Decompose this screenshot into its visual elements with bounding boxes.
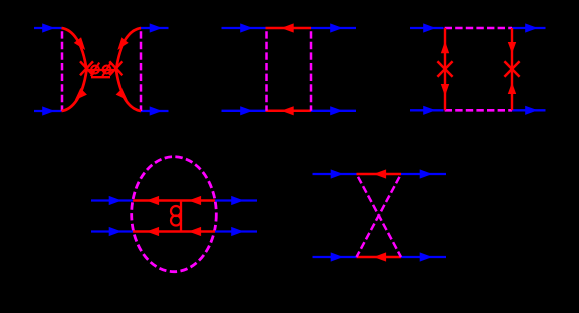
scalar propagator top (magenta dashed horizontal) <box>444 27 513 30</box>
wire: outgoing fermion top (blue) <box>215 199 257 201</box>
arrow 2 <box>189 227 202 236</box>
arrow on incoming fermion top-left <box>42 23 55 32</box>
wire: incoming fermion top (blue) <box>91 199 133 201</box>
wire: outgoing fermion top (blue) <box>401 173 446 175</box>
wire: outgoing fermion bottom (blue) <box>512 109 546 111</box>
arrow <box>240 106 253 115</box>
scalar loop (magenta dashed ellipse) <box>132 157 217 272</box>
arrow <box>281 106 294 115</box>
arrow 2 <box>189 196 202 205</box>
wire: incoming fermion top (blue) <box>222 27 266 29</box>
fermion curve bottom-left (red) <box>62 70 87 111</box>
wire: outgoing fermion bottom (blue) <box>401 256 446 258</box>
arrow down on left vertical <box>441 84 449 96</box>
scalar propagator left (magenta dashed vertical) <box>61 28 64 111</box>
wire: incoming fermion bottom (blue) <box>222 110 266 112</box>
arrow <box>330 23 343 32</box>
arrow <box>423 23 436 32</box>
wire: outgoing fermion bottom-right (blue) <box>141 110 169 112</box>
internal fermion bottom (red, arrow left) <box>357 256 402 259</box>
wire: incoming fermion bottom-left (blue) <box>34 110 62 112</box>
arrow <box>525 23 538 32</box>
arrow on outgoing fermion bottom-right <box>150 106 163 115</box>
wire: outgoing fermion bottom (blue) <box>311 110 356 112</box>
mass-insertion cross on right vertical (X) <box>504 61 519 76</box>
wire: outgoing fermion top (blue) <box>311 27 356 29</box>
arrow <box>281 23 294 32</box>
arrow <box>423 106 436 115</box>
internal fermion left vertical (red) <box>444 28 446 110</box>
arrow down on right vertical <box>508 42 516 54</box>
arrow on fermion curve top-right <box>114 37 129 53</box>
gluon curl loop 1 <box>171 206 181 216</box>
internal fermion top (red, arrow left) <box>357 173 402 176</box>
arrow 1 <box>147 196 160 205</box>
arrow on outgoing fermion top-right <box>150 23 163 32</box>
arrow <box>109 227 122 236</box>
mass-insertion cross left (X) <box>80 61 93 75</box>
arrow <box>331 169 344 178</box>
arrow <box>525 106 538 115</box>
arrow <box>374 252 387 261</box>
wire: incoming fermion bottom (blue) <box>313 256 357 258</box>
arrow on fermion curve bottom-right <box>116 88 131 103</box>
scalar propagator left (magenta dashed vertical) <box>265 28 268 111</box>
internal fermion top (red, arrows left) <box>133 199 215 202</box>
scalar propagator bottom (magenta dashed horizontal) <box>444 109 513 112</box>
gluon curl loop 2 <box>171 216 181 226</box>
wire: incoming fermion bottom (blue) <box>91 230 133 232</box>
fermion curve bottom-right (red) <box>116 70 141 111</box>
arrow <box>420 169 433 178</box>
arrow <box>420 252 433 261</box>
arrow <box>330 106 343 115</box>
arrow <box>231 196 244 205</box>
wire: incoming fermion top (blue) <box>410 27 444 29</box>
internal fermion bottom (red, arrow left) <box>266 110 312 113</box>
wire: incoming fermion top-left (blue) <box>34 27 62 29</box>
arrow on incoming fermion bottom-left <box>42 106 55 115</box>
scalar propagator right (magenta dashed vertical) <box>140 28 143 111</box>
wire: outgoing fermion top (blue) <box>512 27 546 29</box>
mass-insertion cross right (X) <box>109 61 122 75</box>
internal fermion right vertical (red) <box>511 28 513 110</box>
wire: incoming fermion top (blue) <box>313 173 357 175</box>
wire: incoming fermion bottom (blue) <box>410 109 444 111</box>
arrow <box>231 227 244 236</box>
arrow <box>331 252 344 261</box>
arrow up on right vertical <box>508 82 516 94</box>
arrow on fermion curve top-left <box>74 37 89 53</box>
arrow up on left vertical <box>441 41 449 53</box>
arrow <box>240 23 253 32</box>
wire: outgoing fermion bottom (blue) <box>215 230 257 232</box>
scalar propagator crossed 1 (magenta dashed) <box>357 174 402 257</box>
gluon vertical line (red) <box>180 201 182 232</box>
arrow 1 <box>147 227 160 236</box>
slashed circle insertion 1 <box>91 63 99 77</box>
arrow on fermion curve bottom-left <box>71 88 86 103</box>
internal fermion top (red, arrow left) <box>266 27 312 30</box>
fermion curve top-right (red) <box>116 28 141 70</box>
slashed circle insertion 2 <box>102 63 110 77</box>
arrow <box>109 196 122 205</box>
fermion curve top-left (red) <box>62 28 87 70</box>
mass-insertion cross on left vertical (X) <box>437 61 452 76</box>
central fermion line (red horizontal) <box>87 69 117 71</box>
internal fermion bottom (red, arrows left) <box>133 230 215 233</box>
scalar propagator right (magenta dashed vertical) <box>310 28 313 111</box>
wire: outgoing fermion top-right (blue) <box>141 27 169 29</box>
arrow <box>374 169 387 178</box>
central lower bar (red) <box>91 76 110 78</box>
scalar propagator crossed 2 (magenta dashed) <box>357 174 402 257</box>
